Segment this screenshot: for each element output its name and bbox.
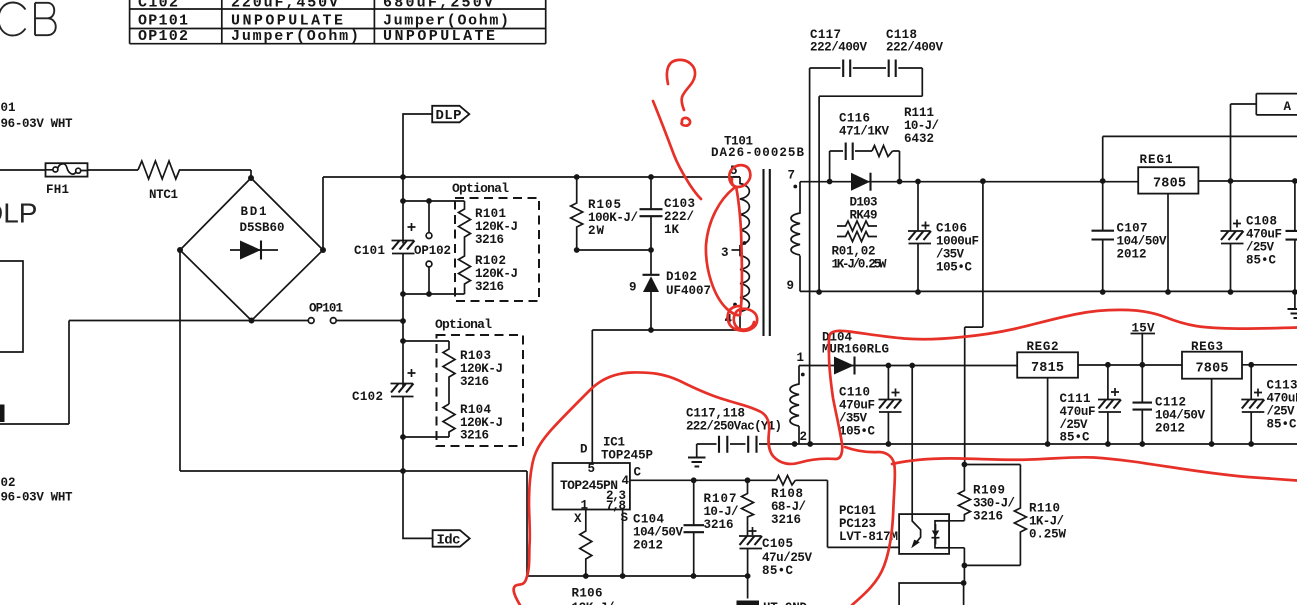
svg-text:96-03V WHT: 96-03V WHT <box>1 491 73 505</box>
svg-text:3216: 3216 <box>475 233 504 247</box>
optocoupler PC101 <box>899 514 949 554</box>
svg-text:3216: 3216 <box>973 510 1003 524</box>
bridge rectifier BD1 <box>177 175 326 324</box>
svg-text:C104: C104 <box>633 513 664 527</box>
svg-text:RK49: RK49 <box>850 209 878 223</box>
svg-text:104/50V: 104/50V <box>1155 409 1205 423</box>
svg-text:471/1KV: 471/1KV <box>839 125 889 139</box>
svg-text:TOP245P: TOP245P <box>601 449 653 463</box>
svg-text:3216: 3216 <box>460 375 489 389</box>
node dots opto <box>962 462 968 468</box>
svg-text:120K-J: 120K-J <box>475 267 518 281</box>
svg-text:3: 3 <box>721 246 729 260</box>
optional dashed box 2 <box>437 335 524 446</box>
svg-text:Idc: Idc <box>437 533 461 549</box>
wire to R109 leg <box>965 181 983 465</box>
svg-text:470uF: 470uF <box>1246 228 1282 242</box>
svg-text:85•C: 85•C <box>762 564 793 578</box>
svg-text:NTC1: NTC1 <box>149 188 178 202</box>
transformer secondary 1 <box>791 182 800 292</box>
wire R105/C103 junction <box>577 249 651 251</box>
svg-text:C116: C116 <box>839 112 870 126</box>
resistor R107 <box>742 480 754 536</box>
capacitor C104 <box>693 480 695 576</box>
diode D104 <box>834 357 854 375</box>
svg-text:3216: 3216 <box>460 429 489 443</box>
capacitor C102 (electrolytic on rail) <box>391 369 416 397</box>
svg-text:3216: 3216 <box>704 518 734 532</box>
net flag DLP <box>432 106 469 123</box>
svg-text:/35V: /35V <box>936 248 964 262</box>
svg-text:Jumper(Oohm): Jumper(Oohm) <box>231 28 359 45</box>
jumper OP102 open contacts <box>403 201 465 294</box>
wire bridge minus bottom <box>69 320 403 322</box>
transformer core <box>764 169 770 336</box>
svg-text:7805: 7805 <box>1153 177 1186 192</box>
resistor R101 <box>459 201 471 240</box>
svg-text:4: 4 <box>622 474 630 488</box>
svg-text:2012: 2012 <box>633 539 663 553</box>
svg-text:6432: 6432 <box>904 132 934 146</box>
svg-text:1K-J/0.25W: 1K-J/0.25W <box>832 258 887 272</box>
svg-text:D: D <box>580 443 588 457</box>
bottom connector box (clipped) <box>899 565 964 605</box>
pin 3 tap <box>732 249 741 251</box>
svg-text:R108: R108 <box>771 487 803 501</box>
opto LED box <box>935 521 949 548</box>
svg-text:85•C: 85•C <box>1267 418 1297 432</box>
svg-text:C111: C111 <box>1060 392 1091 406</box>
svg-text:C102: C102 <box>138 0 178 12</box>
svg-text:3216: 3216 <box>475 280 504 294</box>
svg-text:S: S <box>621 511 629 525</box>
node dots secondary1 <box>816 178 1297 295</box>
svg-text:/35V: /35V <box>839 412 867 426</box>
options table <box>130 0 546 45</box>
svg-text:7: 7 <box>788 169 796 183</box>
PCB big title text (clipped) <box>0 3 56 36</box>
fuse FH1 <box>46 163 88 176</box>
svg-text:330-J/: 330-J/ <box>973 497 1015 511</box>
svg-text:R111: R111 <box>904 106 934 120</box>
svg-text:C: C <box>634 466 642 480</box>
capacitor C112 <box>1141 365 1143 444</box>
svg-text:R103: R103 <box>460 349 491 363</box>
svg-text:D102: D102 <box>666 270 697 284</box>
svg-text:D5SB60: D5SB60 <box>240 221 285 235</box>
wire secondary1 +rail (pin7) <box>800 180 1297 183</box>
svg-text:01: 01 <box>1 101 16 115</box>
resistor R103 <box>443 341 455 404</box>
svg-text:D103: D103 <box>850 196 878 210</box>
wire HV bus rail <box>403 114 433 538</box>
wire AC line input <box>0 170 251 178</box>
connector stub pin <box>0 405 5 423</box>
svg-text:220uF,450V: 220uF,450V <box>231 0 338 12</box>
svg-text:PC123: PC123 <box>839 517 876 531</box>
capacitor at right edge (clipped) <box>1294 181 1296 309</box>
svg-text:C103: C103 <box>664 197 695 211</box>
svg-text:222/400V: 222/400V <box>810 41 867 55</box>
svg-text:C107: C107 <box>1117 222 1148 236</box>
capacitor C113 (electrolytic, clipped) <box>1241 365 1264 444</box>
svg-text:104/50V: 104/50V <box>1117 235 1167 249</box>
svg-text:10-J/: 10-J/ <box>704 505 739 519</box>
capacitor C106 (electrolytic) <box>908 181 931 292</box>
svg-text:R107: R107 <box>704 492 737 506</box>
svg-text:R01,02: R01,02 <box>832 245 876 259</box>
regulator REG3 <box>1182 352 1242 379</box>
svg-text:7805: 7805 <box>1196 362 1229 377</box>
svg-text:120K-J: 120K-J <box>460 362 503 376</box>
svg-text:96-03V WHT: 96-03V WHT <box>1 117 73 131</box>
svg-text:Optional: Optional <box>435 317 492 332</box>
svg-text:470uF: 470uF <box>839 399 875 413</box>
svg-text:C113: C113 <box>1267 379 1297 393</box>
net flag Idc <box>433 530 470 547</box>
svg-text:02: 02 <box>1 476 16 490</box>
svg-text:/25V: /25V <box>1246 241 1274 255</box>
IC U1 TOP245 box <box>553 463 630 510</box>
regulator REG2 <box>1017 352 1078 377</box>
wire bridge plus output up and right <box>323 177 740 250</box>
svg-text:R105: R105 <box>588 198 621 212</box>
svg-text:C105: C105 <box>762 537 793 551</box>
resistor R105 <box>571 177 583 250</box>
resistor R104 <box>443 404 455 437</box>
svg-text:OP101: OP101 <box>138 13 188 30</box>
svg-text:0.25W: 0.25W <box>1029 528 1066 542</box>
svg-text:A: A <box>1284 100 1292 114</box>
svg-text:7815: 7815 <box>1031 361 1064 376</box>
svg-text:470uF: 470uF <box>1267 392 1297 406</box>
regulator REG1 <box>1138 167 1198 193</box>
svg-text:REG1: REG1 <box>1140 153 1173 167</box>
svg-text:120K-J: 120K-J <box>475 220 518 234</box>
svg-text:DLP: DLP <box>436 108 462 124</box>
svg-text:C110: C110 <box>839 386 870 400</box>
transformer T101 primary winding <box>740 177 749 330</box>
svg-text:OP101: OP101 <box>309 302 343 316</box>
wire S pin <box>622 510 624 577</box>
svg-text:R110: R110 <box>1029 502 1060 516</box>
svg-text:2W: 2W <box>588 224 604 238</box>
svg-text:100K-J/: 100K-J/ <box>588 211 638 225</box>
svg-text:FH1: FH1 <box>46 183 69 197</box>
svg-text:R102: R102 <box>475 254 506 268</box>
capacitor C111 (electrolytic) <box>1098 365 1121 444</box>
node dots AC side <box>400 174 654 474</box>
opto phototransistor <box>912 514 920 544</box>
wire secondary1 ground rail (pin9) <box>800 290 1297 292</box>
svg-text:DA26-00025B: DA26-00025B <box>711 146 804 160</box>
red annotation pointer line <box>653 101 701 199</box>
red annotation question mark <box>667 60 695 110</box>
svg-text:47u/25V: 47u/25V <box>762 551 812 565</box>
resistor R109 <box>958 465 970 521</box>
wire drain to IC1 <box>591 330 593 463</box>
svg-text:68-J/: 68-J/ <box>771 500 806 514</box>
svg-text:222/: 222/ <box>664 210 694 224</box>
HT-GND symbol (clipped) <box>737 601 760 605</box>
diode D103 <box>851 173 870 191</box>
svg-text:R109: R109 <box>973 484 1005 498</box>
ground right edge (clipped) <box>1288 309 1297 318</box>
svg-text:1000uF: 1000uF <box>936 235 979 249</box>
svg-text:C112: C112 <box>1155 396 1186 410</box>
capacitor C107 <box>1102 181 1104 292</box>
ground primary-secondary <box>696 444 698 457</box>
svg-text:105•C: 105•C <box>839 425 875 439</box>
capacitor C101 (electrolytic on rail) <box>392 223 416 254</box>
svg-text:REG2: REG2 <box>1027 340 1059 354</box>
svg-text:2: 2 <box>800 430 808 444</box>
svg-text:R106: R106 <box>572 587 603 601</box>
transformer secondary 2 <box>790 366 799 445</box>
svg-text:HT-GND: HT-GND <box>763 601 807 605</box>
svg-text:470uF: 470uF <box>1060 405 1096 419</box>
svg-text:DLP: DLP <box>0 197 37 228</box>
svg-text:C106: C106 <box>936 222 967 236</box>
wires to optional box 2 <box>403 341 449 437</box>
svg-text:C102: C102 <box>352 390 383 404</box>
svg-text:MUR160RLG: MUR160RLG <box>822 343 889 357</box>
capacitor C103 <box>650 177 652 250</box>
red annotation loop along primary <box>706 188 742 315</box>
wire secondary2 +rail (pin1) <box>799 364 1297 367</box>
red annotation circle on pin 4 <box>728 306 757 331</box>
snubber C116 + R111 <box>830 151 900 181</box>
svg-text:1K-J/: 1K-J/ <box>1029 515 1064 529</box>
svg-text:1: 1 <box>581 499 589 513</box>
resistor R106 on X pin <box>580 510 592 577</box>
svg-text:104/50V: 104/50V <box>633 526 683 540</box>
svg-text:Optional: Optional <box>452 181 509 196</box>
Y-capacitors symbols <box>697 443 1297 445</box>
wire to optocoupler collector <box>911 366 913 515</box>
svg-text:C101: C101 <box>354 244 385 258</box>
svg-text:2012: 2012 <box>1117 248 1147 262</box>
svg-text:IC1: IC1 <box>603 436 625 450</box>
svg-text:BD1: BD1 <box>241 205 267 219</box>
svg-text:Jumper(Oohm): Jumper(Oohm) <box>383 13 509 30</box>
svg-text:OP102: OP102 <box>138 28 188 45</box>
svg-text:5: 5 <box>588 462 596 476</box>
resistors R01,02 <box>837 221 877 231</box>
svg-text:R101: R101 <box>475 207 506 221</box>
capacitor C108 (electrolytic) <box>1221 181 1244 292</box>
svg-text:85•C: 85•C <box>1060 431 1090 445</box>
left connector box (clipped) <box>0 261 23 352</box>
svg-text:C117,118: C117,118 <box>686 407 745 421</box>
capacitor C117 / C118 series string <box>810 68 923 444</box>
svg-text:12K-J/: 12K-J/ <box>572 601 615 605</box>
svg-text:9: 9 <box>629 281 637 295</box>
capacitor C110 (electrolytic) <box>879 366 902 445</box>
node dots secondary2 <box>792 362 1254 447</box>
wire control rail <box>630 480 914 547</box>
svg-text:R104: R104 <box>460 403 491 417</box>
red annotation lower sweep <box>892 457 1297 480</box>
svg-text:105•C: 105•C <box>936 261 972 275</box>
svg-text:X: X <box>574 512 582 526</box>
svg-text:/25V: /25V <box>1267 405 1295 419</box>
red annotation question mark dot <box>682 118 691 126</box>
svg-text:10-J/: 10-J/ <box>904 119 939 133</box>
svg-text:PC101: PC101 <box>839 504 876 518</box>
svg-text:3216: 3216 <box>771 513 801 527</box>
resistor R108 <box>776 476 795 486</box>
jumper OP101 open contacts <box>308 318 314 324</box>
svg-text:1: 1 <box>797 351 805 365</box>
red annotation long sweep <box>514 310 1297 605</box>
resistor R110 <box>964 465 1026 566</box>
opto LED stub wires <box>935 521 964 566</box>
resistor R102 <box>459 240 471 294</box>
optional dashed box 1 <box>455 198 539 301</box>
svg-text:REG3: REG3 <box>1191 340 1223 354</box>
net flag A (clipped) <box>1256 94 1297 115</box>
red annotation right descender <box>845 447 895 605</box>
wire source rail <box>527 575 748 577</box>
svg-text:1K: 1K <box>664 223 679 237</box>
svg-text:2012: 2012 <box>1155 422 1185 436</box>
diode D102 <box>650 250 652 330</box>
svg-text:9: 9 <box>787 279 795 293</box>
wire output A <box>1103 104 1297 181</box>
svg-text:C108: C108 <box>1246 215 1277 229</box>
svg-text:UF4007: UF4007 <box>666 284 711 298</box>
thermistor NTC1 <box>138 161 181 179</box>
wire D102 to drain node <box>592 329 740 331</box>
svg-text:OP102: OP102 <box>414 244 451 258</box>
red annotation circle on pin 5 <box>729 165 750 187</box>
svg-text:85•C: 85•C <box>1246 254 1276 268</box>
wire AC return to connector 02 <box>0 250 527 576</box>
capacitor C105 (electrolytic) <box>739 527 762 549</box>
svg-text:222/400V: 222/400V <box>886 41 943 55</box>
